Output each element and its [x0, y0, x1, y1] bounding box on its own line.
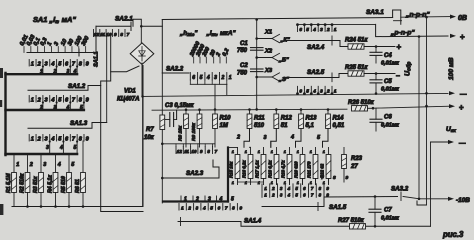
label Uвх [446, 126, 456, 133]
capacitor C5 0,01мк [370, 74, 400, 95]
switch wafer SA1.2 contact row [29, 96, 89, 104]
capacitor C6 0,01мк [370, 108, 400, 131]
capacitor C2 750 [237, 63, 263, 77]
capacitor C4 0,01мк [370, 47, 400, 67]
wire main resistor bus (L2) [152, 109, 347, 110]
switch wafer SA1.1 contact row [29, 60, 89, 68]
svg-text:1: 1 [184, 197, 187, 203]
label SA2.5 [307, 69, 325, 76]
resistor R19 4,7к [281, 148, 292, 186]
wire output minus Uвх [431, 140, 467, 147]
wire SA2.2 contacts common [190, 80, 227, 110]
svg-text:SA1.5: SA1.5 [329, 204, 347, 211]
svg-text:1: 1 [31, 98, 34, 104]
svg-text:750: 750 [237, 71, 248, 77]
switch SA2.2 contact row [190, 73, 231, 82]
svg-text:10: 10 [192, 149, 197, 154]
svg-text:1: 1 [271, 150, 273, 154]
resistor R7 10к [160, 73, 165, 203]
svg-text:R11: R11 [254, 116, 265, 122]
svg-text:3: 3 [43, 162, 46, 168]
svg-text:R26 510к: R26 510к [348, 100, 375, 106]
svg-text:R24 51к: R24 51к [345, 38, 368, 44]
svg-text:3: 3 [320, 88, 323, 93]
svg-text:1: 1 [271, 181, 273, 185]
resistor R25 51к [345, 65, 395, 76]
label SA2.3 [186, 170, 204, 177]
svg-text:R7: R7 [146, 127, 154, 133]
resistor R14 0,51 [317, 108, 345, 147]
node bridge top [140, 26, 142, 44]
svg-text:C1: C1 [240, 41, 248, 47]
svg-text:R19 4,7к: R19 4,7к [281, 160, 286, 178]
resistor R11 510 [236, 108, 265, 147]
svg-text:5: 5 [200, 75, 203, 81]
svg-text:9: 9 [114, 32, 117, 37]
wire SA1 top contact line [27, 26, 96, 56]
connector X3 [257, 68, 289, 83]
wire bank top ties [250, 141, 277, 147]
svg-text:2: 2 [271, 193, 275, 198]
wire right vertical rail v1 [418, 37, 420, 199]
svg-text:0В: 0В [458, 15, 467, 22]
svg-text:4: 4 [57, 162, 61, 168]
label C3 0,15мк [165, 103, 194, 109]
label minus after R25 [396, 73, 400, 80]
label SA1.3 [70, 120, 88, 127]
svg-text:12: 12 [177, 149, 182, 154]
svg-text:6: 6 [218, 206, 221, 211]
resistor R2 510к [20, 154, 33, 208]
svg-text:R9 100к: R9 100к [191, 123, 197, 141]
svg-text:R21 270: R21 270 [307, 161, 312, 178]
svg-text:0,01мк: 0,01мк [381, 61, 400, 67]
wire X terminal rail [255, 18, 258, 111]
svg-text:1: 1 [245, 150, 247, 154]
svg-text:3: 3 [208, 197, 211, 203]
resistor R3 51к [33, 154, 46, 208]
svg-text:SA1.2: SA1.2 [68, 83, 86, 90]
svg-text:1: 1 [284, 150, 286, 154]
svg-text:R1 5,1М: R1 5,1М [6, 173, 12, 193]
svg-text:3: 3 [264, 135, 267, 141]
SA2.2 gain range values [189, 40, 231, 63]
svg-text:2: 2 [236, 135, 240, 141]
svg-text:2: 2 [271, 186, 275, 191]
switch SA2.1 contact row [94, 30, 130, 37]
resistor R16 6,2к [242, 148, 253, 186]
svg-text:1: 1 [297, 181, 299, 185]
svg-text:SA1.3: SA1.3 [70, 120, 88, 127]
SA1 range values and contact stubs [19, 33, 91, 52]
scan mark left 1 [0, 68, 3, 78]
svg-text:5: 5 [74, 145, 77, 151]
wire output 0V [401, 15, 456, 19]
switch SA1.4 contact row [179, 204, 242, 211]
svg-text:–: – [396, 73, 400, 80]
svg-text:C2: C2 [240, 63, 248, 69]
wire SA2.4 wiper [284, 36, 348, 47]
svg-text:1: 1 [334, 88, 337, 93]
svg-text:R4 5,1к: R4 5,1к [48, 175, 54, 193]
svg-text:—: — [459, 140, 466, 147]
label SA1.5 [329, 204, 347, 211]
wire SA2.1 wiper [96, 22, 131, 31]
svg-text:5,1: 5,1 [306, 123, 315, 129]
svg-text:1: 1 [297, 150, 299, 154]
svg-text:C6: C6 [384, 115, 392, 121]
svg-text:4: 4 [312, 27, 316, 32]
labels 7 8 9 under R21 R22 R23 [321, 175, 349, 181]
wire bank bottoms to rows [238, 179, 329, 185]
resistor R10 1М [213, 108, 232, 147]
wire SA2.2 wiper [162, 72, 189, 74]
svg-text:1: 1 [229, 75, 232, 81]
svg-text:11: 11 [184, 149, 189, 154]
capacitor C7 0,01мк [369, 195, 400, 227]
svg-text:8: 8 [120, 32, 123, 37]
svg-text:R18 6,2к: R18 6,2к [268, 160, 273, 178]
svg-text:2: 2 [326, 27, 330, 32]
label КЦ407А [117, 97, 139, 103]
wire SA2.1 jump to bridge [133, 19, 143, 27]
svg-text:рис.3: рис.3 [442, 230, 464, 239]
resistor R20 620 [294, 148, 305, 186]
svg-text:+: + [460, 33, 465, 42]
svg-text:4: 4 [206, 75, 210, 81]
svg-text:0,51: 0,51 [333, 123, 345, 129]
wire output plus mV [373, 103, 464, 112]
label R7 [144, 127, 155, 141]
svg-text:7: 7 [127, 32, 130, 37]
svg-text:1: 1 [232, 150, 234, 154]
svg-text:2: 2 [187, 206, 191, 211]
resistor R15 10к [229, 148, 240, 186]
svg-text:3: 3 [214, 75, 217, 81]
svg-text:1: 1 [31, 137, 34, 143]
svg-text:SA1.1: SA1.1 [94, 51, 100, 67]
resistor R8 10к [178, 108, 189, 147]
wire measuring bus minus (L1) [143, 93, 448, 96]
svg-text:R20 620: R20 620 [294, 161, 299, 178]
svg-text:R15 10к: R15 10к [229, 161, 234, 178]
wire top bus 0V [162, 18, 392, 20]
resistor R27 510к [338, 218, 366, 229]
svg-text:3: 3 [320, 27, 323, 32]
svg-text:7: 7 [225, 206, 228, 211]
label VD1 [124, 89, 136, 95]
svg-text:X1: X1 [264, 30, 272, 36]
svg-text:1: 1 [232, 181, 234, 185]
wire SA2.5 wiper [284, 73, 348, 82]
scan mark left 3 [0, 204, 3, 215]
svg-text:4: 4 [219, 197, 223, 203]
svg-text:1: 1 [31, 62, 34, 68]
svg-text:X2: X2 [264, 49, 273, 55]
wire bottom bus right [241, 222, 431, 227]
wire bridge left corner to return [111, 66, 139, 72]
svg-text:4: 4 [287, 193, 291, 198]
svg-text:R16 6,2к: R16 6,2к [242, 160, 247, 178]
svg-text:12: 12 [94, 32, 100, 37]
connector X2 [257, 49, 289, 64]
svg-text:8: 8 [333, 175, 336, 181]
svg-text:1: 1 [181, 206, 184, 211]
svg-text:0,01мк: 0,01мк [381, 87, 400, 93]
svg-text:SA3.2: SA3.2 [391, 186, 409, 193]
svg-text:6: 6 [299, 27, 302, 32]
svg-text:„Б": „Б" [278, 58, 289, 64]
resistor R22 62 [320, 148, 331, 186]
svg-text:4: 4 [312, 88, 316, 93]
label SA2.2 [166, 66, 184, 73]
wire output -10V [419, 197, 470, 204]
label SA1.1 [94, 51, 100, 67]
svg-text:2: 2 [326, 88, 330, 93]
svg-text:1: 1 [310, 181, 312, 185]
svg-text:SA1.4: SA1.4 [244, 218, 262, 225]
label npn [405, 12, 430, 19]
svg-text:C5: C5 [384, 79, 392, 85]
svg-text:R27 510к: R27 510к [338, 218, 365, 224]
svg-text:3: 3 [196, 206, 199, 211]
svg-text:3: 3 [46, 145, 49, 151]
wire lower rows common [262, 197, 398, 211]
resistor R24 51к [345, 38, 395, 50]
svg-text:27: 27 [350, 164, 358, 170]
label plus top output [460, 33, 465, 42]
wire SA1.3 wiper feed [28, 123, 107, 129]
resistor R5 510 [61, 154, 75, 208]
wire bottom common bus left [12, 66, 143, 207]
wire SA1.4 thick bus [163, 200, 228, 202]
svg-text:SA2.3: SA2.3 [186, 170, 204, 177]
label pnp [390, 30, 415, 37]
wire SA2.3 wiper [162, 160, 219, 178]
svg-text:10: 10 [106, 32, 112, 37]
resistor R6 51 [75, 141, 85, 208]
label h21э header [179, 30, 198, 37]
wire return line from SA2.1 stack [101, 37, 143, 212]
label SA3.1 [366, 9, 384, 16]
label SA2.4 [307, 44, 325, 51]
switch SA3.1 jump [393, 10, 402, 24]
resistor R9 100к [191, 108, 202, 147]
wire SA2.1 contact drop [106, 37, 108, 123]
wire SA1.2 thick common bus [6, 109, 84, 111]
label Uобр [405, 62, 413, 76]
svg-text:R12: R12 [281, 116, 293, 122]
svg-text:R3 51к: R3 51к [33, 176, 39, 193]
svg-text:R25 51к: R25 51к [345, 65, 368, 71]
SA1.4 tap numbers [181, 196, 234, 203]
switch SA3.2 contact [401, 192, 420, 201]
svg-text:VD1: VD1 [124, 89, 136, 95]
svg-text:+: + [459, 103, 464, 112]
svg-text:X3: X3 [264, 68, 273, 74]
svg-text:R23: R23 [351, 156, 363, 162]
wire pnp feed [298, 24, 457, 38]
svg-text:SA3.1: SA3.1 [366, 9, 384, 16]
svg-text:9: 9 [239, 206, 242, 211]
wire thick drop to SA1.4 [228, 148, 238, 202]
svg-text:5: 5 [306, 27, 309, 32]
svg-text:SA2.5: SA2.5 [307, 69, 325, 76]
svg-text:C4: C4 [384, 53, 392, 59]
svg-text:510: 510 [254, 123, 265, 129]
svg-text:0,01мк: 0,01мк [381, 216, 400, 222]
svg-text:4: 4 [290, 135, 294, 141]
svg-text:R10: R10 [220, 116, 232, 122]
SA1.1 taps to common bus [40, 65, 78, 75]
svg-text:SA1 „Iк, мА": SA1 „Iк, мА" [33, 15, 76, 24]
wire SA1.2 wiper feed [28, 86, 101, 91]
wire right vertical rail v3 [430, 142, 432, 226]
label 100 мВ [448, 57, 455, 80]
svg-text:1М: 1М [220, 123, 229, 129]
svg-text:C7: C7 [384, 208, 392, 214]
wire SA1.1 thick common bus [6, 73, 78, 75]
svg-text:5: 5 [306, 88, 309, 93]
svg-text:—: — [460, 91, 467, 98]
diode bridge VD1 КЦ407А [130, 43, 154, 65]
svg-text:Uвх: Uвх [446, 126, 456, 133]
svg-text:0,01мк: 0,01мк [381, 123, 400, 129]
svg-text:Uобр: Uобр [405, 62, 413, 76]
resistor R26 510к [348, 100, 375, 111]
svg-text:7: 7 [321, 175, 324, 181]
scan mark left 2 [0, 100, 2, 107]
svg-text:6: 6 [299, 88, 302, 93]
svg-text:R17 1,1к: R17 1,1к [255, 160, 260, 178]
switch SA1 range selector label [33, 15, 76, 24]
wire SA2.1 to top bus [141, 20, 162, 74]
label 0V [458, 15, 467, 22]
svg-text:5: 5 [210, 206, 213, 211]
switch wafer SA1.3 contact row [29, 135, 89, 143]
svg-text:R5 510: R5 510 [61, 176, 67, 193]
svg-text:4: 4 [59, 145, 63, 151]
switch SA2.5 contact row [296, 86, 337, 95]
wire bridge bottom rail [142, 63, 143, 207]
resistor R13 5,1 [290, 108, 317, 147]
switch SA1 lower contact row A [262, 184, 329, 191]
resistor R23 27 [342, 148, 363, 183]
SA1.3 taps to common bus [46, 140, 78, 154]
label plus after R24 [397, 43, 402, 52]
svg-text:4: 4 [287, 186, 291, 191]
resistor R21 270 [307, 148, 318, 186]
svg-text:КЦ407А: КЦ407А [117, 97, 139, 103]
switch SA1 lower contact row B [262, 191, 329, 198]
label SA1.4 [244, 218, 262, 225]
svg-text:„Iко, мкА": „Iко, мкА" [206, 30, 237, 37]
wire SA1.3 thick common bus [6, 153, 78, 155]
svg-text:SA2.4: SA2.4 [307, 44, 325, 51]
SA1.2 taps to common bus [39, 101, 85, 111]
svg-text:1: 1 [258, 150, 260, 154]
connector X1 [257, 30, 290, 44]
svg-text:8: 8 [232, 206, 235, 211]
svg-text:1: 1 [16, 162, 19, 168]
label SA2.1 [115, 16, 133, 23]
svg-text:2: 2 [195, 197, 199, 203]
wire output minus mV [449, 91, 467, 98]
caption рис.3 [442, 230, 464, 239]
resistor R4 5,1к [48, 154, 61, 208]
svg-text:100 мВ: 100 мВ [448, 57, 455, 80]
resistor R18 6,2к [268, 148, 279, 186]
svg-text:R2 510к: R2 510к [20, 173, 26, 193]
svg-text:„p-n-p": „p-n-p" [390, 30, 415, 37]
resistor R12 51 [264, 108, 293, 147]
wire SA1 left vertical bus [4, 73, 6, 155]
svg-text:C3 0,15мк: C3 0,15мк [165, 103, 194, 109]
capacitor C3 [163, 110, 177, 127]
capacitor C1 750 [237, 41, 263, 54]
svg-text:6: 6 [192, 75, 195, 81]
svg-text:10к: 10к [144, 135, 155, 141]
resistor R17 1,1к [255, 148, 266, 186]
svg-text:R14: R14 [333, 116, 345, 122]
svg-text:-10В: -10В [456, 197, 470, 204]
svg-text:R13: R13 [306, 116, 318, 122]
svg-text:5: 5 [231, 197, 234, 203]
svg-text:51: 51 [281, 123, 288, 129]
svg-text:SA2.1: SA2.1 [115, 16, 133, 23]
svg-text:1: 1 [334, 27, 337, 32]
switch SA2.3 upper contact row [162, 144, 217, 154]
svg-text:2: 2 [29, 162, 33, 168]
wire right vertical rail v2 [417, 17, 428, 205]
wire SA1.4 wiper line [178, 218, 241, 226]
svg-text:1: 1 [310, 150, 312, 154]
svg-text:R8 10к: R8 10к [178, 125, 184, 141]
resistor R1 5,1М [6, 154, 19, 207]
svg-text:SA2.2: SA2.2 [166, 66, 184, 73]
label SA3.2 [391, 186, 409, 193]
svg-text:1: 1 [323, 150, 325, 154]
svg-text:+: + [397, 43, 402, 52]
svg-text:11: 11 [100, 32, 105, 37]
svg-text:750: 750 [237, 48, 248, 54]
label SA1.2 [68, 83, 86, 90]
svg-text:R6 51: R6 51 [75, 179, 81, 193]
switch SA2.4 contact row [296, 23, 376, 32]
svg-text:4: 4 [202, 206, 206, 211]
wire bridge rail lower [141, 95, 144, 206]
svg-text:2: 2 [220, 75, 224, 81]
svg-text:9: 9 [346, 175, 349, 181]
label Iко header [206, 30, 237, 37]
